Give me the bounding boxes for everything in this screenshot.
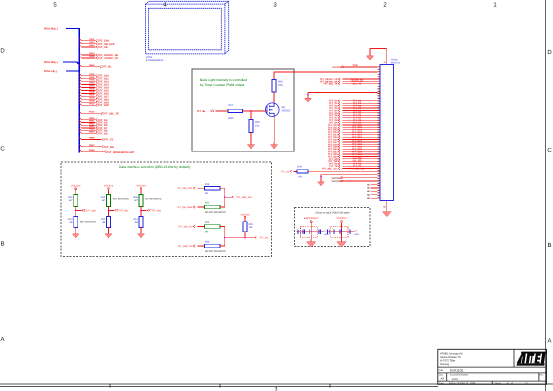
wire cap rail (VCC3V3)	[327, 231, 354, 233]
power node BACKLIGHT (caps)	[304, 217, 319, 232]
junction DB sel	[224, 196, 226, 198]
capacitor C21	[340, 230, 342, 234]
wire TFT_SB_SCK	[79, 41, 115, 46]
wire R12 to ground	[108, 228, 110, 232]
wire rowC-rowD tie	[224, 227, 226, 247]
capacitor C20	[333, 230, 335, 234]
junction (gnd row 2)	[320, 175, 322, 177]
svg-text:TFT_DB_ENC: TFT_DB_ENC	[177, 187, 193, 190]
wire TFT_D9 to connector	[329, 121, 377, 124]
svg-text:PB02: PB02	[89, 122, 95, 125]
svg-text:TFT_IM2: TFT_IM2	[151, 209, 161, 212]
wire TFT_D22 to connector	[328, 153, 378, 156]
ground (TFT_IM1 divider)	[105, 232, 112, 238]
junction (TFT_IM1)	[108, 210, 110, 212]
svg-text:PA08: PA08	[89, 96, 95, 99]
svg-text:10k: 10k	[249, 226, 254, 229]
capacitor C21b	[349, 230, 360, 236]
svg-text:B: B	[547, 242, 551, 249]
svg-text:TFT_SEL_TE: TFT_SEL_TE	[103, 113, 119, 116]
svg-text:NOT MOUNTED: NOT MOUNTED	[145, 198, 162, 201]
decoupling caps box	[295, 208, 371, 247]
svg-text:100n: 100n	[354, 233, 360, 236]
wire grounded pin row	[308, 93, 377, 97]
svg-text:60: 60	[383, 206, 385, 209]
power VCC3V3 to pin 1 (VDD)	[332, 64, 377, 69]
svg-text:PA09: PA09	[89, 99, 95, 102]
svg-text:TFT_SE: TFT_SE	[280, 171, 289, 174]
LCD module LCD1 (display drawing)	[146, 1, 229, 54]
wire TFT_TE to connector	[329, 165, 377, 168]
svg-text:0R: 0R	[205, 192, 208, 195]
svg-text:2: 2	[383, 2, 387, 9]
svg-text:Q4: Q4	[282, 106, 286, 109]
port TFT_IM2	[141, 209, 162, 212]
svg-text:R28: R28	[255, 121, 260, 124]
svg-text:R23: R23	[205, 221, 210, 224]
wire TFT_HSYNC_DE	[79, 52, 118, 57]
ground (connector bottom)	[383, 209, 392, 217]
svg-text:R15: R15	[101, 196, 106, 199]
svg-text:Back Light intensity is contro: Back Light intensity is controlled	[200, 78, 247, 82]
wire TFT_TE	[79, 137, 113, 142]
note text	[200, 78, 247, 87]
junction CS	[224, 237, 226, 239]
svg-text:VCC3V3: VCC3V3	[240, 213, 250, 216]
svg-text:TFT_SEL_TE: TFT_SEL_TE	[323, 83, 338, 86]
svg-text:SEL_TE: SEL_TE	[353, 83, 362, 86]
resistor R18	[134, 195, 162, 207]
svg-text:NOT MOUNTED: NOT MOUNTED	[113, 198, 130, 201]
resistor R25	[243, 222, 254, 232]
power VCC3V3 (R25)	[240, 213, 250, 221]
wire TFT_SD	[79, 44, 108, 49]
svg-text:4k7: 4k7	[102, 199, 106, 202]
svg-text:6015-1A: 6015-1A	[391, 62, 400, 65]
resistor R20 (row D)	[177, 241, 226, 253]
svg-text:TFT_CS: TFT_CS	[259, 237, 268, 240]
wire TFT_HSYNC_DE to connector	[320, 80, 378, 83]
svg-text:0R: 0R	[205, 230, 208, 233]
svg-text:4k7: 4k7	[69, 199, 73, 202]
LCD reference text	[146, 56, 164, 62]
svg-text:3: 3	[275, 387, 278, 391]
svg-text:TFT_WR_EN: TFT_WR_EN	[178, 226, 193, 229]
svg-text:PIOA-LS[..]: PIOA-LS[..]	[44, 70, 57, 73]
svg-text:R20: R20	[205, 241, 210, 244]
wire TFT_D13	[79, 82, 109, 87]
svg-text:TFT_DB_NOR: TFT_DB_NOR	[177, 206, 193, 209]
wire TFT_MODE	[79, 149, 134, 154]
svg-text:PA06: PA06	[89, 91, 95, 94]
svg-text:J2: J2	[383, 61, 386, 64]
wire NC pin 1	[367, 183, 377, 186]
backlight PWM note box	[192, 69, 294, 151]
port TFT_CS	[255, 236, 269, 239]
svg-text:TFT_SEL_JCL: TFT_SEL_JCL	[349, 167, 365, 170]
power node VCC3V3 (caps)	[336, 217, 347, 232]
svg-text:4: 4	[163, 2, 167, 9]
svg-text:Data interface selection (DB0-: Data interface selection (DB0-16 bits by…	[119, 165, 190, 169]
svg-text:R13: R13	[68, 218, 73, 221]
wire shield to ground	[370, 48, 387, 64]
svg-text:Title: Title	[439, 369, 444, 372]
wire TFT_D1 to connector	[329, 102, 377, 105]
J2 part number	[391, 58, 400, 64]
svg-text:Vestre Rosten 79: Vestre Rosten 79	[440, 356, 461, 359]
svg-text:PA00: PA00	[89, 73, 95, 76]
wire TFT_D0 to connector	[329, 100, 377, 103]
wire TFT_RD	[79, 144, 114, 149]
port TFT_IM0	[76, 209, 97, 212]
svg-text:TFT_DB0_SEL: TFT_DB0_SEL	[236, 196, 253, 199]
wire TFT_SEL_JCL to connector	[322, 167, 377, 170]
power VCC3V3 (TFT_IM1 divider)	[104, 185, 114, 195]
svg-text:PA01: PA01	[89, 76, 95, 79]
svg-text:NC: NC	[367, 193, 370, 196]
wire TFT_D16	[79, 91, 109, 96]
svg-text:R16: R16	[68, 196, 73, 199]
svg-text:R24: R24	[205, 202, 210, 205]
resistor R29	[297, 166, 308, 179]
junction (TFT_IM0)	[75, 210, 77, 212]
svg-text:PA10: PA10	[89, 102, 95, 105]
wire TFT_D6	[79, 122, 108, 127]
svg-text:TFT_TE: TFT_TE	[104, 139, 114, 142]
wire TFT_D2 to connector	[329, 104, 377, 107]
bus PIOA (vertical bus)	[78, 28, 80, 152]
svg-text:PA07: PA07	[89, 93, 95, 96]
svg-text:R25: R25	[249, 223, 254, 226]
wire TFT_D16 to connector	[328, 138, 378, 141]
wire connector to ground (bottom)	[386, 201, 388, 210]
svg-text:TFT_D9: TFT_D9	[98, 132, 108, 135]
ground (TFT_IM2 divider)	[138, 232, 145, 238]
svg-text:R18: R18	[134, 196, 139, 199]
wire TFT_D19	[79, 99, 109, 104]
svg-text:PA03: PA03	[89, 82, 95, 85]
wire port to R29	[293, 170, 297, 172]
connector pin stubs and numbers	[377, 66, 380, 200]
svg-text:PB19: PB19	[89, 64, 95, 67]
wire TFT_D8 to connector	[329, 119, 377, 122]
svg-text:PB07: PB07	[89, 144, 95, 147]
wire NC pin 2	[367, 187, 377, 190]
svg-text:55: 55	[377, 196, 379, 199]
wire TFT_D10	[79, 73, 109, 78]
wire TFT_D7	[79, 125, 108, 130]
svg-text:NC: NC	[367, 183, 370, 186]
svg-text:3: 3	[273, 2, 277, 9]
svg-text:by Timer Counter PWM output: by Timer Counter PWM output	[200, 83, 244, 87]
resistor R15	[101, 195, 129, 207]
svg-text:1: 1	[493, 2, 497, 9]
svg-text:PIOA-MS[..]: PIOA-MS[..]	[44, 27, 58, 30]
svg-text:PA15: PA15	[89, 55, 95, 58]
wire TFT_D8	[79, 128, 108, 133]
wire R26 to Q4 drain	[273, 92, 275, 103]
svg-text:PB00: PB00	[89, 117, 95, 120]
connector J2 body	[380, 65, 394, 201]
wire TFT_D4	[79, 117, 108, 122]
svg-text:R12: R12	[101, 218, 106, 221]
svg-text:PB05: PB05	[89, 130, 95, 133]
svg-text:Rev: Rev	[540, 374, 545, 377]
svg-text:Friday, October 31, 2008: Friday, October 31, 2008	[449, 382, 476, 385]
svg-text:4k7: 4k7	[134, 199, 138, 202]
svg-text:TFT_D20: TFT_D20	[98, 104, 110, 107]
ground (row 2)	[318, 180, 325, 186]
wire TFT_VSYNC_CK to connector	[320, 78, 378, 81]
svg-text:20R: 20R	[278, 84, 283, 87]
svg-text:PA11: PA11	[89, 38, 95, 41]
wire TFT_D14 to connector	[328, 133, 378, 136]
port TFT_BL input	[197, 110, 215, 113]
svg-text:A: A	[0, 336, 4, 343]
wire NC pin 4	[367, 193, 377, 196]
svg-text:VCC3V3: VCC3V3	[331, 177, 341, 180]
svg-text:Close to each VDD/VSS pairs: Close to each VDD/VSS pairs	[315, 211, 350, 214]
Q4 reference	[282, 106, 291, 113]
svg-text:D: D	[0, 48, 5, 55]
wire cap rail (BACKLIGHT)	[297, 231, 324, 233]
svg-text:PA02: PA02	[89, 79, 95, 82]
wire R25 to CS net	[244, 232, 246, 238]
svg-text:B: B	[0, 241, 4, 248]
svg-text:TFT_BL: TFT_BL	[102, 66, 112, 69]
svg-text:VCC3V3: VCC3V3	[104, 185, 114, 188]
wire TFT_D17 to connector	[328, 141, 378, 144]
svg-text:R27: R27	[229, 104, 234, 107]
data interface selection box	[61, 162, 272, 257]
capacitor C16	[297, 230, 299, 234]
svg-text:TFT_BL: TFT_BL	[197, 110, 207, 113]
svg-text:BACKLIGHT: BACKLIGHT	[304, 217, 319, 220]
resistor R13	[68, 217, 96, 228]
svg-text:TFT_IM0: TFT_IM0	[86, 209, 96, 212]
wire TFT_D21 to connector	[328, 150, 378, 153]
svg-text:A3: A3	[441, 377, 445, 381]
wire TFT_RS to connector	[329, 163, 377, 166]
svg-text:0R: 0R	[299, 176, 302, 179]
wire TFT_RD to connector	[329, 158, 378, 161]
svg-text:PA04: PA04	[89, 85, 95, 88]
junction (gnd row)	[307, 93, 309, 95]
wire TFT_D18 to connector	[328, 143, 378, 146]
svg-text:NC: NC	[367, 187, 370, 190]
svg-text:TFT_VSYNC_CK: TFT_VSYNC_CK	[98, 57, 118, 60]
wire R27 to gate	[243, 110, 267, 112]
svg-text:A: A	[547, 338, 551, 345]
wire TFT_D23 to connector	[328, 155, 378, 158]
title block	[438, 349, 547, 385]
wire TFT_D11 to connector	[328, 126, 377, 129]
wire junction to R28	[250, 111, 252, 120]
wire TFT_BL	[79, 64, 112, 69]
svg-text:PA13: PA13	[89, 44, 95, 47]
svg-text:VCC3V3: VCC3V3	[71, 185, 81, 188]
svg-text:0R NOT MOUNTED: 0R NOT MOUNTED	[205, 211, 226, 214]
svg-text:0R: 0R	[135, 221, 138, 224]
resistor R27	[228, 104, 243, 120]
svg-text:TFT_DB9_CS: TFT_DB9_CS	[177, 245, 192, 248]
wire TFT_D7 to connector	[329, 117, 377, 120]
wire NC pin 5	[367, 197, 377, 200]
svg-text:0R: 0R	[70, 221, 73, 224]
svg-text:VCC3V3: VCC3V3	[331, 180, 341, 183]
ground (Q4 source)	[271, 143, 278, 149]
wire TFT_SEL_TE to connector	[323, 83, 377, 86]
wire TFT_VSYNC_CK	[79, 55, 118, 60]
svg-text:PB06: PB06	[89, 137, 95, 140]
wire rowA-rowB tie	[224, 188, 226, 207]
ground (R28)	[247, 143, 254, 149]
wire TFT_D3 to connector	[329, 107, 377, 110]
svg-text:0R: 0R	[102, 221, 105, 224]
port TFT_IM1	[109, 209, 130, 212]
wire TFT_D12	[79, 79, 109, 84]
wire TFT_D5	[79, 120, 108, 125]
port TFT_DB0_SEL	[225, 196, 253, 199]
svg-text:PA05: PA05	[89, 88, 95, 91]
svg-text:C?: C?	[354, 230, 358, 233]
svg-text:Date:: Date:	[439, 382, 445, 385]
junction (TFT_IM2)	[140, 210, 142, 212]
wire CS junction to R25	[225, 237, 255, 239]
wire NC pin 3	[367, 190, 377, 193]
ground (TFT_IM0 divider)	[72, 232, 79, 238]
wire R28 to ground	[250, 133, 252, 143]
svg-text:PB08: PB08	[89, 149, 95, 152]
wire TFT_D11	[79, 76, 109, 81]
svg-text:ET024006DHU: ET024006DHU	[146, 59, 164, 62]
wire TFT_D13 to connector	[328, 131, 378, 134]
svg-text:N-7075 Tiller: N-7075 Tiller	[440, 360, 455, 363]
wire R29 to connector	[308, 170, 377, 172]
wire TFT_IM2 node	[140, 207, 142, 217]
power VCC3V3 row a	[331, 177, 377, 180]
svg-text:TFT_RD: TFT_RD	[104, 146, 114, 149]
close-to-pin outline (BACKLIGHT)	[301, 227, 318, 237]
wire to R26	[273, 72, 275, 80]
svg-text:TFT_SD: TFT_SD	[98, 46, 108, 49]
svg-text:LCD: LCD	[452, 377, 458, 381]
svg-text:C?: C?	[324, 230, 328, 233]
svg-text:Sheet: Sheet	[495, 382, 501, 385]
svg-text:PIOA-MS[..]: PIOA-MS[..]	[44, 61, 58, 64]
wire TFT_D9	[79, 130, 108, 135]
svg-text:NC: NC	[367, 190, 370, 193]
svg-text:VCC3V3: VCC3V3	[136, 185, 146, 188]
junction R25/CS	[244, 237, 246, 239]
bus entry PIOA-MS[23..16]	[44, 61, 79, 64]
svg-text:TFT_MODE/BCKLGHT: TFT_MODE/BCKLGHT	[107, 151, 135, 154]
svg-text:PB01: PB01	[89, 120, 95, 123]
wire TFT_IM0 node	[75, 207, 77, 217]
svg-text:PC03: PC03	[89, 111, 95, 114]
svg-text:VDD: VDD	[353, 64, 358, 67]
wire TFT_D12 to connector	[328, 129, 378, 132]
svg-text:PB03: PB03	[89, 125, 95, 128]
resistor R14	[134, 217, 143, 228]
svg-text:C: C	[547, 147, 552, 154]
resistor R16	[68, 195, 77, 207]
close-to-pin outline (VCC3V3)	[331, 227, 348, 237]
svg-text:C: C	[0, 146, 5, 153]
resistor R24 (row B)	[177, 202, 226, 214]
wire TFT_D6 to connector	[329, 114, 377, 117]
transistor Q4 (N-MOSFET)	[266, 103, 280, 117]
ATMEL logo	[517, 352, 547, 366]
power VCC3V3 (TFT_IM2 divider)	[136, 185, 146, 195]
wire R13 to ground	[75, 228, 77, 232]
ground (connector shield, top)	[366, 54, 373, 61]
svg-text:R29: R29	[298, 166, 303, 169]
wire VDD to backlight (top rail)	[274, 71, 377, 73]
wire TFT_D20 to connector	[328, 148, 378, 151]
svg-text:NOT MOUNTED: NOT MOUNTED	[80, 221, 97, 224]
wire R14 to ground	[140, 228, 142, 232]
svg-text:Norway: Norway	[440, 363, 450, 366]
svg-text:PB04: PB04	[89, 128, 95, 131]
svg-text:PA14: PA14	[89, 52, 95, 55]
svg-text:EVK1105: EVK1105	[450, 368, 463, 372]
svg-text:R14: R14	[134, 218, 139, 221]
wire TFT_D5 to connector	[329, 112, 377, 115]
resistor R12	[101, 217, 110, 228]
svg-text:VCC3V3: VCC3V3	[336, 217, 347, 220]
wire TFT_D18	[79, 96, 109, 101]
wire TFT_D20	[79, 102, 109, 107]
wire TFT_D19 to connector	[328, 146, 378, 149]
resistor R26	[272, 80, 283, 93]
resistor R28	[249, 120, 260, 133]
wire TFT_D17	[79, 93, 109, 98]
port TFT_SEL (R29 net)	[280, 170, 291, 173]
svg-text:100n: 100n	[324, 233, 330, 236]
capacitor C19	[328, 230, 330, 234]
wire TFT_D10 to connector	[328, 124, 378, 127]
bus entry PIOA-LS[15..0]	[44, 70, 79, 73]
wire TFT_SEL_TE	[79, 111, 119, 116]
svg-text:D: D	[547, 49, 552, 56]
resistor R19 (row A)	[177, 183, 225, 195]
svg-text:100R: 100R	[228, 117, 234, 120]
wire grounded row 2	[321, 175, 377, 180]
power VCC3V3 (TFT_IM0 divider)	[71, 185, 81, 195]
svg-text:10k: 10k	[255, 125, 260, 128]
capacitor C18b	[319, 230, 330, 236]
svg-text:PA12: PA12	[89, 41, 95, 44]
wire TFT_D4 to connector	[329, 109, 377, 112]
power VCC3V3 row b	[331, 180, 377, 183]
wire TFT_WR to connector	[328, 160, 377, 163]
svg-text:TFT_IM1: TFT_IM1	[119, 209, 129, 212]
svg-text:VCC3V3: VCC3V3	[332, 66, 342, 69]
wire TFT_SD0	[79, 38, 109, 43]
junction at gate/R28	[250, 110, 252, 112]
svg-text:2N7002: 2N7002	[282, 110, 291, 113]
bus entry PIOA-MS[31..24]	[44, 27, 79, 30]
svg-text:TFT_SEL_JCL: TFT_SEL_JCL	[322, 167, 338, 170]
wire TFT_D15	[79, 88, 109, 93]
wire TFT_D14	[79, 85, 109, 90]
capacitor C17	[303, 230, 305, 234]
wire TFT_BL to R27	[216, 110, 229, 112]
ground (BACKLIGHT caps)	[306, 232, 316, 247]
ground (pin row)	[305, 96, 312, 102]
wire Q4 source to ground	[273, 116, 275, 142]
